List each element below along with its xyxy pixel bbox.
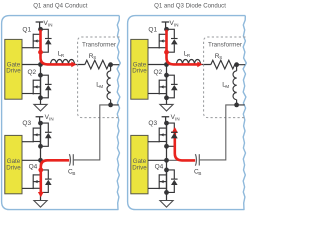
transistor Q3 gate — [159, 128, 166, 143]
wire capacitor to transformer — [199, 105, 236, 160]
transistor Q2 gate — [159, 80, 166, 95]
transistor Q3 gate — [33, 128, 40, 143]
ground under Q4 — [34, 201, 47, 208]
transistor Q2 channel — [166, 75, 168, 98]
left panel: Q1/Q4 conduction state — [2, 16, 121, 210]
resistor RS — [211, 60, 237, 69]
svg-text:Transformer: Transformer — [82, 41, 116, 48]
node: Q4 drain — [164, 168, 169, 173]
node: Q2 source — [38, 95, 43, 100]
svg-text:Drive: Drive — [132, 164, 147, 171]
blocking capacitor CB — [41, 159, 70, 161]
transistor Q2 channel — [40, 75, 42, 98]
rail wire lower leg — [40, 123, 42, 200]
rail wire upper leg — [40, 29, 42, 104]
rail wire upper leg — [166, 29, 168, 104]
body diode of Q3 — [167, 123, 178, 146]
current path through Q3 body diode (red) — [175, 129, 195, 161]
svg-text:Drive: Drive — [6, 164, 21, 171]
current path through Q4 (red) — [41, 160, 69, 192]
gate wire Q3 — [148, 141, 159, 143]
wire node A to transformer — [41, 64, 85, 66]
gate drive block (bottom) — [131, 135, 148, 193]
svg-text:S: S — [93, 55, 96, 60]
blocking capacitor CB — [167, 159, 196, 161]
node: Q3 source — [38, 144, 43, 149]
gate drive block (bottom) — [5, 135, 22, 193]
transistor Q1 channel — [40, 29, 42, 52]
body diode of Q4 — [167, 170, 178, 193]
gate wire Q4 — [148, 187, 159, 189]
node: Q2 drain — [38, 73, 43, 78]
body diode of Q2 — [41, 75, 52, 98]
body diode of Q1 — [41, 29, 52, 52]
node: Q1 source (red) — [164, 50, 169, 55]
transistor Q3 channel — [166, 123, 168, 146]
transistor Q4 channel — [166, 170, 168, 193]
node: LM bottom — [108, 103, 113, 108]
node: RS-LM junction — [234, 62, 239, 67]
gate drive block (top) — [5, 39, 22, 99]
gate wire Q2 — [148, 93, 159, 95]
wire capacitor to transformer — [73, 105, 110, 160]
gate wire Q4 — [22, 187, 33, 189]
node: RS-LM junction — [108, 62, 113, 67]
svg-text:IN: IN — [48, 22, 53, 27]
stub wires through torn edge — [111, 65, 120, 105]
wire gate-drive to node B — [22, 159, 41, 161]
stub wires through torn edge — [237, 65, 246, 105]
resistor RS — [85, 60, 111, 69]
svg-text:B: B — [72, 171, 75, 176]
body diode of Q1 — [167, 29, 178, 52]
wire gate-drive to node A — [148, 64, 167, 66]
transistor Q4 gate — [33, 174, 40, 189]
svg-text:Q1: Q1 — [22, 26, 31, 33]
transistor Q1 channel — [166, 29, 168, 52]
transistor Q1 gate — [159, 34, 166, 49]
svg-text:M: M — [99, 84, 103, 89]
node: Q3 source — [164, 144, 169, 149]
node: LM bottom — [234, 103, 239, 108]
node: Q4 drain (red) — [38, 168, 43, 173]
ground under Q2 — [160, 104, 173, 111]
transistor Q2 gate — [33, 80, 40, 95]
gate wire Q1 — [22, 47, 33, 49]
VIN supply (top) — [162, 22, 170, 29]
VIN supply (bottom) — [162, 117, 170, 123]
node: Q1 drain — [38, 27, 43, 32]
panel frame with torn right edge — [128, 16, 247, 210]
node: Q3 drain — [164, 121, 169, 126]
current path Q1 leg (red) — [167, 30, 199, 65]
svg-text:Drive: Drive — [132, 68, 147, 75]
node A (phase node upper) — [164, 62, 169, 67]
gate wire Q3 — [22, 141, 33, 143]
svg-text:Q1 and Q4 Conduct: Q1 and Q4 Conduct — [33, 3, 88, 10]
node: Q3 drain — [38, 121, 43, 126]
panel frame with torn right edge — [2, 16, 121, 210]
svg-text:Q4: Q4 — [29, 164, 38, 171]
node: Q1 source (red) — [38, 50, 43, 55]
wire gate-drive to node A — [22, 64, 41, 66]
inductor LM — [110, 65, 112, 71]
svg-text:Q3: Q3 — [22, 120, 31, 127]
transistor Q3 channel — [40, 123, 42, 146]
inductor LR — [51, 60, 57, 65]
VIN supply (bottom) — [36, 117, 44, 123]
svg-text:Q2: Q2 — [154, 69, 163, 76]
body diode of Q4 — [41, 170, 52, 193]
svg-text:IN: IN — [174, 22, 179, 27]
transistor Q4 gate — [159, 174, 166, 189]
node B (phase node lower) — [164, 158, 169, 163]
body diode of Q3 redrawn over red — [171, 131, 178, 133]
VIN supply (top) — [36, 22, 44, 29]
transformer dashed box — [78, 37, 120, 118]
inductor LM — [236, 65, 238, 71]
right panel: Q1/Q3 diode conduction state — [128, 16, 247, 210]
svg-text:B: B — [198, 171, 201, 176]
node: Q2 drain — [164, 73, 169, 78]
inductor LR — [177, 60, 183, 65]
svg-text:Q1 and Q3 Diode Conduct: Q1 and Q3 Diode Conduct — [154, 3, 226, 10]
svg-text:Q2: Q2 — [28, 69, 37, 76]
rail wire lower leg — [166, 123, 168, 200]
svg-text:Drive: Drive — [6, 68, 21, 75]
svg-text:Q4: Q4 — [155, 164, 164, 171]
gate wire Q2 — [22, 93, 33, 95]
svg-text:IN: IN — [49, 117, 54, 122]
svg-text:Transformer: Transformer — [208, 41, 242, 48]
svg-text:S: S — [219, 55, 222, 60]
node: Q1 drain — [164, 27, 169, 32]
wire node A to transformer — [167, 64, 211, 66]
ground under Q4 — [160, 201, 173, 208]
ground under Q2 — [34, 104, 47, 111]
node: Q4 source — [164, 190, 169, 195]
body diode of Q2 — [167, 75, 178, 98]
body diode of Q3 — [41, 123, 52, 146]
current path Q1 leg (red) — [41, 30, 73, 65]
transformer dashed box — [204, 37, 246, 118]
svg-text:Q1: Q1 — [148, 26, 157, 33]
node B (phase node lower) — [38, 158, 43, 163]
node A (phase node upper) — [38, 62, 43, 67]
transistor Q1 gate — [33, 34, 40, 49]
gate drive block (top) — [131, 39, 148, 99]
wire gate-drive to node B — [148, 159, 167, 161]
svg-text:IN: IN — [175, 117, 180, 122]
gate wire Q1 — [148, 47, 159, 49]
svg-text:Q3: Q3 — [148, 120, 157, 127]
transistor Q4 channel — [40, 170, 42, 193]
node: Q2 source — [164, 95, 169, 100]
svg-text:M: M — [225, 84, 229, 89]
